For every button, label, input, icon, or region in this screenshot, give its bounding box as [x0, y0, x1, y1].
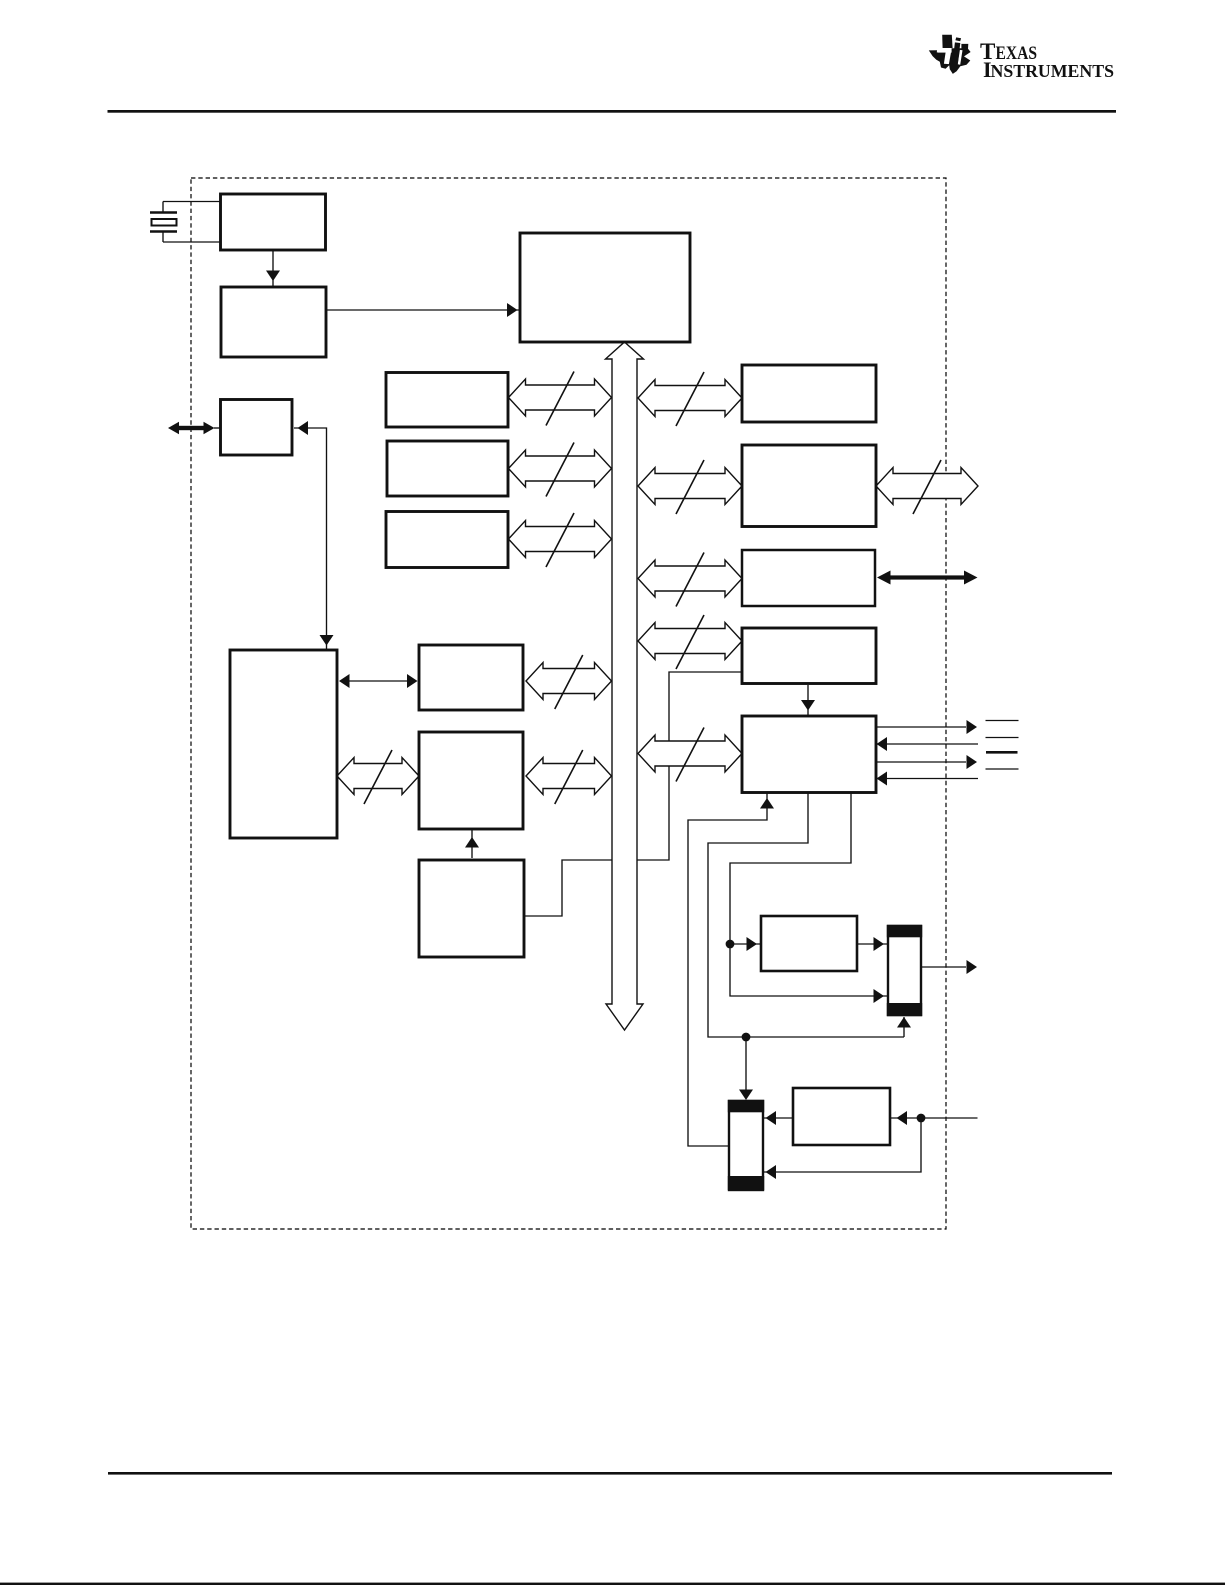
block M1 (watchdog) [419, 645, 523, 710]
bus arrow: box A to bus [509, 379, 612, 416]
block V1 (output buffer with rails) [888, 926, 921, 1015]
wire: D2 output into V2 upper right [764, 1117, 793, 1119]
wire: R4 down into R5 [807, 685, 809, 715]
block R5 (analog I/O) [742, 716, 876, 793]
block M2 (peripheral bridge) [419, 732, 523, 829]
header rule [108, 110, 1117, 113]
junction on rail [742, 1033, 751, 1042]
TI logo: Texas state glyph [929, 35, 971, 74]
wire: D1 output into V1 upper left [857, 943, 887, 945]
pin stub overline 4 [986, 768, 1019, 770]
block R1 (timer A) [742, 365, 876, 422]
block V2 (input buffer with rails) [729, 1101, 763, 1190]
bus arrow: R2 to external port [876, 468, 978, 505]
wire: feedback down and into V2 lower right [764, 1118, 921, 1172]
block B (ROM) [387, 441, 508, 496]
central data bus (vertical block arrow) [606, 342, 644, 1030]
bus arrow: M1 to bus [526, 663, 612, 700]
block B4 (JTAG interface) [221, 400, 293, 456]
thick bidirectional port arrow at B4 [214, 427, 221, 429]
svg-text:NSTRUMENTS: NSTRUMENTS [991, 61, 1115, 81]
pin stub overline 3 (bold) [986, 751, 1018, 754]
wire: B1 to B2 [272, 250, 274, 287]
wire: R5 input line 1 [877, 743, 978, 745]
block M3 (timer) [419, 860, 524, 957]
block C (flash) [386, 512, 508, 568]
wire: junction into D1 left [730, 943, 760, 945]
block B3 (CPU core) [520, 233, 690, 342]
wire: V1 output to pin [921, 966, 966, 968]
block B2 (PLL) [221, 287, 326, 357]
wire: route from V2 left to R5 bottom input [688, 793, 767, 1146]
pin stub overline 1 [986, 720, 1019, 722]
page bottom edge line [0, 1583, 1225, 1585]
block A (RAM) [386, 373, 508, 428]
wire: feedback into B4 right and down into B5 [294, 428, 327, 649]
block R4 (ADC control) [742, 628, 876, 684]
bus arrow: bus to R4 [638, 623, 742, 660]
block B5 (emulation logic) [230, 650, 337, 838]
junction on external input [917, 1114, 926, 1123]
wire: R5 output line 2 [876, 761, 966, 763]
wire: rail up into V1 bottom [903, 1017, 905, 1037]
wire: R5 bottom output to DAC/V1 branch [730, 791, 887, 996]
bus arrow: tall box B5 to M2 [337, 758, 419, 795]
pin stub overline 2 [986, 737, 1019, 739]
bus arrow: M2 to bus [526, 758, 612, 795]
bus arrow: bus to R2 [638, 468, 742, 505]
wire: R5 input line 2 [877, 778, 978, 780]
bus arrow: box B to bus [509, 450, 612, 487]
bus arrow: bus to R3 [638, 560, 742, 597]
block R3 (USART) [742, 550, 875, 606]
dashed device boundary [191, 178, 946, 1229]
wire: M3 up into M2 [471, 830, 473, 858]
wire: external input into D2 right [921, 1117, 978, 1119]
junction on branch [726, 940, 735, 949]
block D2 (reference) [793, 1088, 890, 1145]
wire: R5 bottom output to y=1037 rail [708, 791, 904, 1037]
block B1 (oscillator) [221, 194, 326, 250]
thick bidirectional port arrow at R3 [888, 575, 966, 579]
wire: M3 output to R4 (passes under central bus) [524, 672, 742, 916]
wire: junction down into V2 top [745, 1037, 747, 1090]
bus arrow: bus to R1 [638, 380, 742, 417]
wire: R5 output line 1 [876, 726, 966, 728]
wire: B5 to M1 bidirectional [341, 680, 416, 682]
block R2 (port module) [742, 445, 876, 527]
crystal oscillator symbol [163, 201, 221, 203]
footer rule [108, 1472, 1112, 1475]
bus arrow: box C to bus [509, 521, 612, 558]
bus arrow: bus to R5 [638, 735, 742, 772]
block D1 (DAC) [761, 916, 857, 971]
wire: B2 to big box B3 [326, 309, 519, 311]
